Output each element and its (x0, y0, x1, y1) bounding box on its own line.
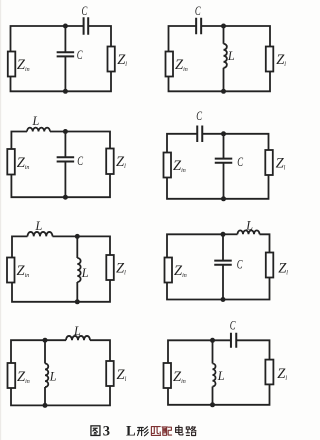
wire: circuit2 shunt inductor lower lead (223, 68, 225, 92)
wire: circuit5 shunt inductor upper lead (76, 236, 78, 258)
svg-text:L: L (81, 266, 89, 280)
wire: circuit4 bottom rail (167, 175, 269, 199)
wire: circuit8 shunt inductor lower lead (212, 387, 214, 405)
circuit 3: L-network, series L on left + shunt C (7, 114, 126, 200)
circuit 2: L-network, series C on left + shunt L (166, 4, 287, 94)
wire: circuit1 bottom rail (11, 72, 112, 92)
svg-text:L: L (217, 369, 225, 383)
wire: circuit4 shunt cap upper lead (223, 134, 225, 159)
wire: circuit7 shunt inductor upper lead (44, 340, 46, 363)
circuit 5: L-network, series L on left + shunt L (7, 219, 126, 304)
wire: circuit1 shunt cap upper lead (64, 26, 66, 52)
svg-text:L: L (49, 370, 57, 384)
circuit 7: L-network, shunt L + series L on top (8, 324, 127, 408)
wire: circuit6 top-right corner (260, 234, 270, 252)
node: circuit5 top junction (75, 234, 80, 239)
impedance box Z_in (circuit 1) (8, 52, 16, 77)
caption char 图 (91, 426, 100, 436)
wire: circuit3 bottom rail (11, 174, 110, 197)
circuit 6: L-network, shunt C + series L on right (165, 218, 289, 302)
wire: circuit6 shunt cap lower lead (222, 265, 224, 300)
wire: circuit7 left rail + top-left segment (11, 340, 45, 363)
node: circuit1 top junction (63, 24, 68, 29)
wire: circuit6 bottom rail (167, 278, 270, 300)
impedance box Z_l (circuit 4) (265, 150, 273, 175)
node: circuit6 bottom junction (221, 297, 226, 302)
wire: circuit3 shunt cap upper lead (64, 132, 66, 158)
capacitor C (shunt, circuit 3) (57, 157, 75, 161)
inductor L (shunt, circuit 8) (213, 364, 216, 387)
wire: circuit8 top-right segment (236, 340, 269, 359)
svg-text:C: C (196, 109, 202, 123)
impedance box Z_in (circuit 2) (166, 52, 174, 77)
wire: circuit8 left rail + top-left segment (168, 340, 213, 363)
impedance box Z_l (circuit 6) (266, 253, 274, 278)
svg-text:C: C (77, 48, 83, 62)
wire: circuit8 shunt inductor upper lead (212, 340, 214, 363)
inductor L (shunt, circuit 5) (77, 258, 80, 282)
capacitor C (series, circuit 8) (231, 333, 236, 348)
capacitor C (series, circuit 1) (84, 17, 89, 35)
impedance box Z_l (circuit 3) (106, 149, 114, 175)
impedance box Z_in (circuit 7) (8, 363, 16, 388)
svg-text:L: L (32, 114, 40, 128)
capacitor C (shunt, circuit 1) (57, 52, 75, 56)
scanner edge shading left (0, 0, 1, 440)
wire: circuit7 shunt inductor lower lead (44, 387, 46, 405)
caption char 形 (137, 427, 148, 436)
svg-text:L: L (35, 219, 43, 233)
wire: circuit8 top lead to series C (213, 339, 231, 341)
wire: circuit2 left rail + top-left segment (169, 26, 196, 52)
node: circuit4 top junction (221, 131, 226, 136)
svg-text:C: C (77, 154, 83, 168)
impedance box Z_l (circuit 7) (106, 361, 114, 386)
wire: circuit8 bottom rail (168, 384, 270, 404)
wire: circuit1 left rail + top-left segment (11, 26, 84, 52)
circuit 8: L-network, shunt L + series C on right (164, 319, 288, 408)
capacitor C (series, circuit 4) (197, 126, 202, 143)
wire: circuit7 top lead to series L (45, 339, 66, 341)
svg-text:L: L (126, 423, 136, 439)
node: circuit7 bottom junction (43, 403, 48, 408)
wire: circuit6 top lead to series L (223, 233, 238, 235)
caption char 电 (176, 426, 183, 435)
inductor L (series, circuit 5) (28, 232, 53, 236)
node: circuit4 bottom junction (221, 196, 226, 201)
impedance box Z_in (circuit 5) (7, 258, 15, 283)
svg-text:C: C (195, 4, 201, 18)
capacitor C (shunt, circuit 6) (214, 261, 232, 265)
impedance box Z_l (circuit 1) (108, 47, 115, 72)
node: circuit2 bottom junction (221, 89, 226, 94)
impedance box Z_in (circuit 8) (164, 363, 172, 388)
wire: circuit2 bottom rail (169, 72, 271, 92)
wire: circuit2 shunt inductor upper lead (223, 26, 225, 44)
node: circuit2 top junction (221, 24, 226, 29)
impedance box Z_in (circuit 3) (7, 149, 15, 175)
node: circuit7 top junction (43, 338, 48, 343)
node: circuit8 top junction (210, 338, 215, 343)
svg-text:L: L (73, 324, 81, 338)
wire: circuit4 shunt cap lower lead (223, 163, 225, 199)
impedance box Z_l (circuit 2) (266, 47, 274, 72)
caption char 配 (red) (162, 427, 172, 435)
svg-text:3: 3 (103, 423, 110, 439)
wire: circuit3 left rail + top lead to L (11, 132, 27, 150)
impedance box Z_in (circuit 6) (165, 258, 173, 283)
wire: circuit6 left rail + top-left segment (167, 234, 223, 257)
circuit 1: L-network, series C on right + shunt C (8, 4, 127, 94)
svg-text:L: L (227, 49, 235, 63)
wire: circuit1 shunt cap lower lead (64, 56, 66, 91)
inductor L (series, circuit 3) (27, 128, 50, 132)
wire: circuit7 bottom rail (11, 386, 110, 405)
node: circuit1 bottom junction (63, 89, 68, 94)
circuit 4: L-network, series C on left + shunt C (164, 109, 286, 201)
node: circuit3 top junction (63, 129, 68, 134)
caption char 路 (186, 427, 196, 436)
svg-text:L: L (245, 218, 253, 232)
caption char 匹 (red) (151, 427, 160, 436)
wire: circuit6 shunt cap upper lead (222, 234, 224, 260)
inductor L (shunt, circuit 7) (45, 364, 48, 388)
wire: circuit2 top-right segment (201, 26, 270, 47)
caption: figure label "图3 L形匹配电路" (91, 423, 196, 439)
impedance box Z_l (circuit 8) (265, 360, 273, 385)
wire: circuit5 shunt inductor lower lead (76, 282, 78, 302)
wire: circuit3 top-right segment (50, 132, 110, 149)
wire: circuit5 left rail + top lead to L (12, 236, 28, 257)
node: circuit5 bottom junction (75, 299, 80, 304)
wire: circuit3 shunt cap lower lead (64, 161, 66, 197)
svg-text:C: C (237, 257, 243, 271)
capacitor C (shunt, circuit 4) (215, 159, 233, 163)
wire: circuit5 top-right segment (53, 236, 111, 255)
inductor L (shunt, circuit 2) (224, 44, 227, 68)
impedance box Z_in (circuit 4) (164, 153, 172, 178)
node: circuit3 bottom junction (63, 195, 68, 200)
wire: circuit7 top-right segment (90, 340, 110, 361)
wire: circuit4 left rail + top-left segment (167, 134, 197, 153)
wire: circuit5 bottom rail (12, 280, 110, 302)
inductor L (series, circuit 7) (66, 336, 90, 340)
node: circuit8 bottom junction (210, 402, 215, 407)
svg-text:C: C (237, 155, 243, 169)
capacitor C (series, circuit 2) (196, 18, 201, 35)
node: circuit6 top junction (221, 232, 226, 237)
wire: circuit4 top-right segment (203, 134, 269, 150)
svg-text:C: C (82, 4, 88, 18)
impedance box Z_l (circuit 5) (106, 255, 114, 280)
inductor L (series, circuit 6) (238, 230, 260, 234)
svg-text:C: C (230, 319, 236, 333)
wire: circuit1 top-right segment to Z_l (89, 26, 111, 47)
